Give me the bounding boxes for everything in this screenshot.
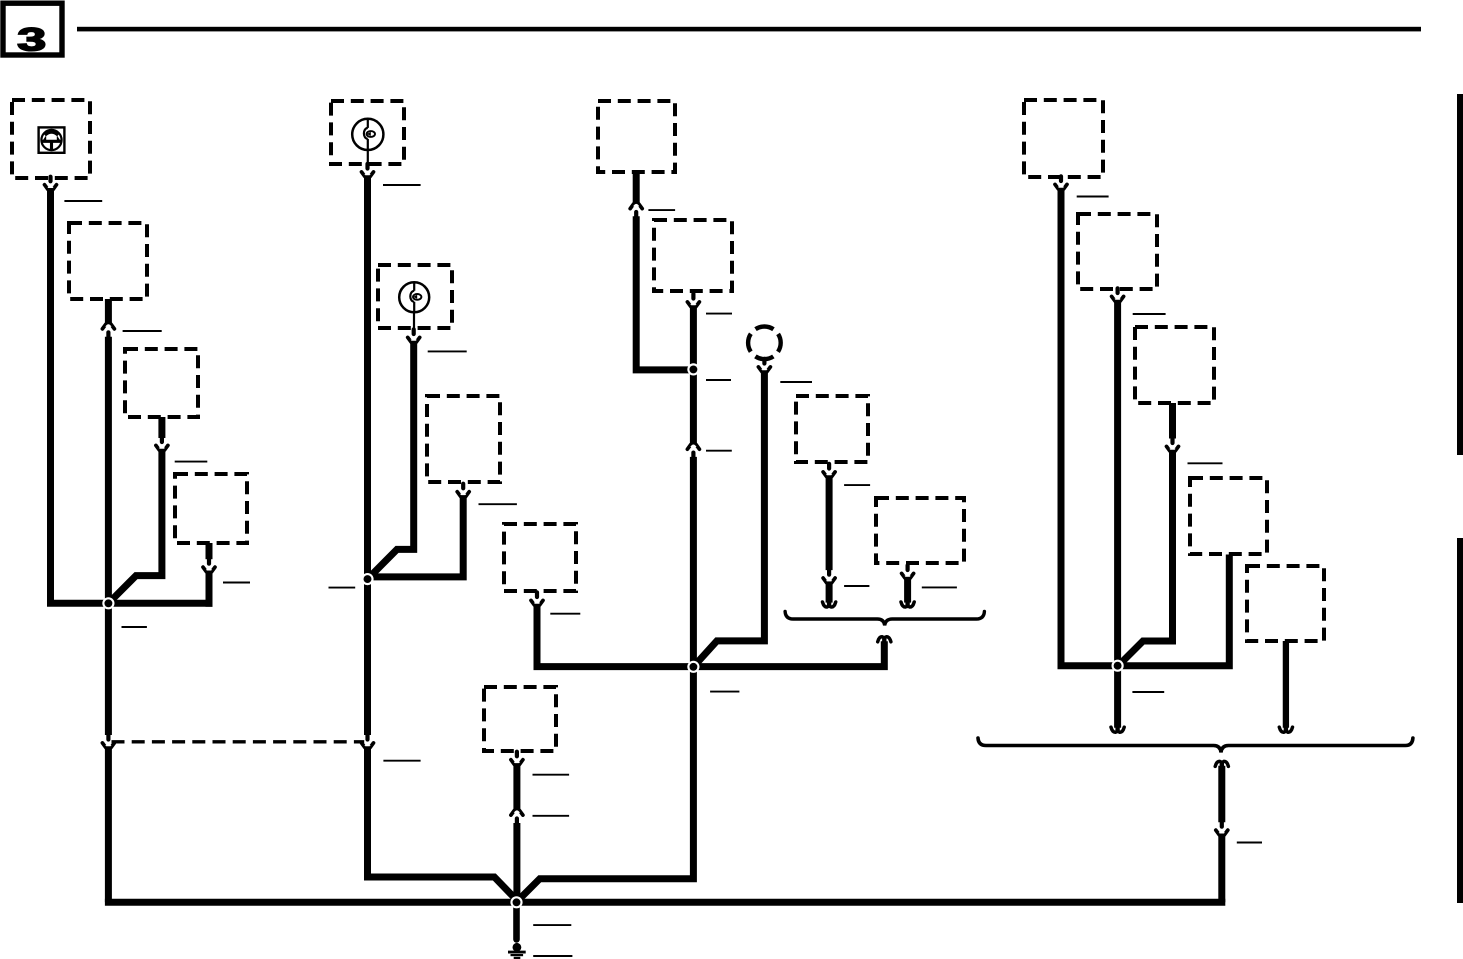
label line mid col3 bbox=[706, 450, 732, 452]
label line wire E bbox=[383, 184, 421, 186]
page number frame bbox=[3, 3, 62, 55]
wire K lower segment bbox=[826, 581, 833, 602]
component box L (dashed) bbox=[876, 498, 964, 563]
label line wire J upper bbox=[706, 313, 732, 315]
arrow out of box G bbox=[457, 484, 469, 497]
fork below brace 1 center bbox=[878, 637, 891, 642]
fork below brace 2 center bbox=[1215, 761, 1228, 766]
svg-text:3: 3 bbox=[17, 22, 46, 58]
label line wire N bbox=[1077, 196, 1109, 198]
label line below junction J3 bbox=[710, 691, 739, 693]
arrow on brace 2 wire bbox=[1216, 822, 1228, 835]
wire junction J2 down to dashed link bbox=[364, 582, 371, 735]
arrow out of box N bbox=[1055, 176, 1067, 189]
brace 1 (collector under boxes K and L) bbox=[785, 612, 984, 626]
arrow out of box K bbox=[823, 464, 835, 477]
wire box J down to up-arrow bbox=[690, 305, 697, 445]
wire col2 down to ground junction bbox=[368, 746, 516, 899]
component box N (dashed) bbox=[1024, 100, 1103, 177]
wire M down to ground junction bbox=[513, 823, 520, 902]
arrow out of box H bbox=[531, 592, 543, 605]
label line wire M upper bbox=[533, 774, 570, 776]
component box O (dashed) bbox=[1078, 214, 1157, 289]
wire col1 down to ground bus bbox=[105, 746, 112, 902]
wire stub below box B bbox=[105, 299, 112, 325]
arrow out of box E bbox=[362, 164, 374, 177]
arrow on wire C bbox=[156, 437, 168, 450]
component box D (dashed) bbox=[175, 474, 247, 543]
component box K (dashed) bbox=[796, 396, 868, 462]
right margin bar upper bbox=[1457, 94, 1463, 455]
label line wire K lower bbox=[844, 585, 869, 587]
label line left of junction J2 bbox=[329, 587, 356, 589]
ground bus (bottom horizontal wire) bbox=[105, 899, 1225, 906]
label line wire O upper bbox=[1133, 313, 1166, 315]
stem below bulb E bbox=[367, 150, 369, 165]
wire stub below box I bbox=[633, 172, 640, 205]
stem below bulb F bbox=[413, 312, 415, 328]
component box A (ignition switch, dashed) bbox=[12, 100, 90, 178]
label line wire F bbox=[428, 350, 467, 352]
arrow out of box O bbox=[1112, 288, 1124, 301]
wire stub below box D bbox=[206, 543, 213, 559]
wire junction J3 down to ground junction bbox=[518, 670, 693, 901]
arrow at dashed link col1 bbox=[102, 735, 114, 748]
up arrow on wire M bbox=[511, 810, 523, 823]
wire brace 2 down segment bbox=[1218, 766, 1225, 822]
wire box C step-diagonal to junction J1 bbox=[110, 449, 162, 602]
wire box O down through junction J4 to brace 2 bbox=[1114, 300, 1121, 728]
bulb symbol in box E bbox=[352, 119, 383, 150]
wire box R down to brace 2 bbox=[1283, 641, 1289, 728]
wire to ground symbol bbox=[513, 906, 520, 940]
bulb symbol in box F bbox=[399, 282, 429, 312]
wire box G left to junction J2 bbox=[368, 495, 464, 577]
junction J3 bbox=[687, 661, 699, 673]
label line wire A bbox=[64, 200, 102, 202]
component box P (dashed) bbox=[1135, 327, 1214, 403]
wire box P step-diagonal to junction J4 bbox=[1120, 450, 1173, 665]
label line below junction J1 bbox=[122, 626, 147, 628]
ground junction JG bbox=[510, 896, 522, 908]
arrow on wire P bbox=[1167, 438, 1179, 451]
chevron end of wire R at brace 2 bbox=[1279, 727, 1292, 732]
component box E (lamp, dashed) bbox=[331, 101, 404, 164]
wire box E down to junction J2 bbox=[364, 175, 371, 579]
label line wire K bbox=[844, 484, 870, 486]
wire box N down, right along bus 4, up to box Q bbox=[1061, 188, 1229, 666]
label line brace 2 wire bbox=[1237, 842, 1262, 844]
arrow on wire D bbox=[203, 559, 215, 572]
label line wire I bbox=[648, 209, 675, 211]
wire junction J1 down to dashed link bbox=[105, 606, 112, 735]
steering-wheel icon in box A bbox=[39, 127, 65, 152]
component box B (dashed) bbox=[69, 223, 147, 299]
label line wire O lower bbox=[1132, 691, 1164, 693]
arrow out of box M bbox=[511, 752, 523, 765]
component box G (dashed) bbox=[427, 396, 500, 482]
label line col2 lower wire bbox=[383, 760, 420, 762]
chevron end of wire O at brace 2 bbox=[1111, 727, 1124, 732]
junction J2 bbox=[361, 573, 373, 585]
up arrow into box B bbox=[102, 324, 114, 337]
label line wire D bbox=[223, 582, 250, 584]
label line at junction J3b bbox=[706, 379, 731, 381]
chevron end of wire K at brace 1 bbox=[823, 602, 836, 607]
wire box M down segment bbox=[513, 763, 520, 811]
brace 2 (collector under column 4) bbox=[978, 738, 1413, 753]
label line wire M lower bbox=[533, 815, 570, 817]
label line wire G bbox=[479, 503, 517, 505]
chevron end of wire L at brace 1 bbox=[901, 602, 914, 607]
wire box F step-diagonal to junction J2 bbox=[369, 341, 414, 578]
component box Q (dashed) bbox=[1190, 478, 1267, 554]
wire circle C1 step-diagonal to junction J3 bbox=[695, 370, 765, 665]
wire box D down to bottom-left bus bbox=[206, 571, 213, 607]
label line wire C bbox=[175, 461, 208, 463]
up arrow mid col3 bbox=[687, 444, 699, 457]
arrow at dashed link col2 bbox=[362, 735, 374, 748]
junction J1 bbox=[102, 597, 114, 609]
component box I (dashed) bbox=[598, 101, 675, 172]
arrow below connector circle bbox=[758, 359, 770, 372]
component box J (dashed) bbox=[654, 220, 732, 291]
arrow out of box A bbox=[45, 177, 57, 190]
junction J4 bbox=[1112, 660, 1124, 672]
wire box I right to junction J3b bbox=[636, 216, 693, 370]
ground symbol bbox=[508, 943, 526, 958]
arrow out of box L bbox=[902, 565, 914, 578]
arrow out of box J bbox=[687, 294, 699, 307]
wire box B down to junction J1 bbox=[105, 337, 112, 604]
page number 3 bbox=[17, 22, 46, 58]
component box R (dashed) bbox=[1247, 566, 1324, 641]
label line wire B bbox=[123, 330, 162, 332]
wire brace 2 down to ground bus bbox=[1218, 834, 1225, 903]
wire stub below box C bbox=[158, 417, 165, 438]
wire box K down to connector bbox=[826, 475, 833, 570]
component box M (dashed) bbox=[484, 687, 556, 751]
top horizontal rule bbox=[77, 27, 1421, 32]
label line wire L bbox=[922, 586, 957, 588]
label line ground upper bbox=[533, 924, 571, 926]
label line wire P bbox=[1188, 462, 1223, 464]
wire box A down to bottom-left bus bbox=[51, 188, 213, 603]
wire box L down to brace 1 bbox=[904, 577, 911, 603]
label line ground lower bbox=[533, 955, 572, 957]
bus from junction J3 right and up to brace 1 bbox=[693, 641, 884, 666]
label line wire H bbox=[550, 613, 580, 615]
component box F (lamp, dashed) bbox=[378, 265, 452, 328]
wire box H right to junction J3 bbox=[537, 604, 693, 667]
dashed connector circle C1 bbox=[748, 327, 781, 360]
dashed link wire between col1 and col2 bbox=[112, 740, 365, 743]
up arrow into box I bbox=[630, 204, 642, 217]
wire col3 down to junction J3 bbox=[690, 457, 697, 667]
arrow out of box F bbox=[408, 329, 420, 342]
component box C (dashed) bbox=[125, 349, 198, 417]
wire stub below box P bbox=[1169, 403, 1176, 439]
connector arrows on wire K bbox=[823, 570, 835, 583]
junction J3b (box I wire joins) bbox=[687, 363, 699, 375]
component box H (dashed) bbox=[504, 524, 576, 591]
right margin bar lower bbox=[1457, 538, 1463, 903]
label line circle wire bbox=[780, 381, 812, 383]
